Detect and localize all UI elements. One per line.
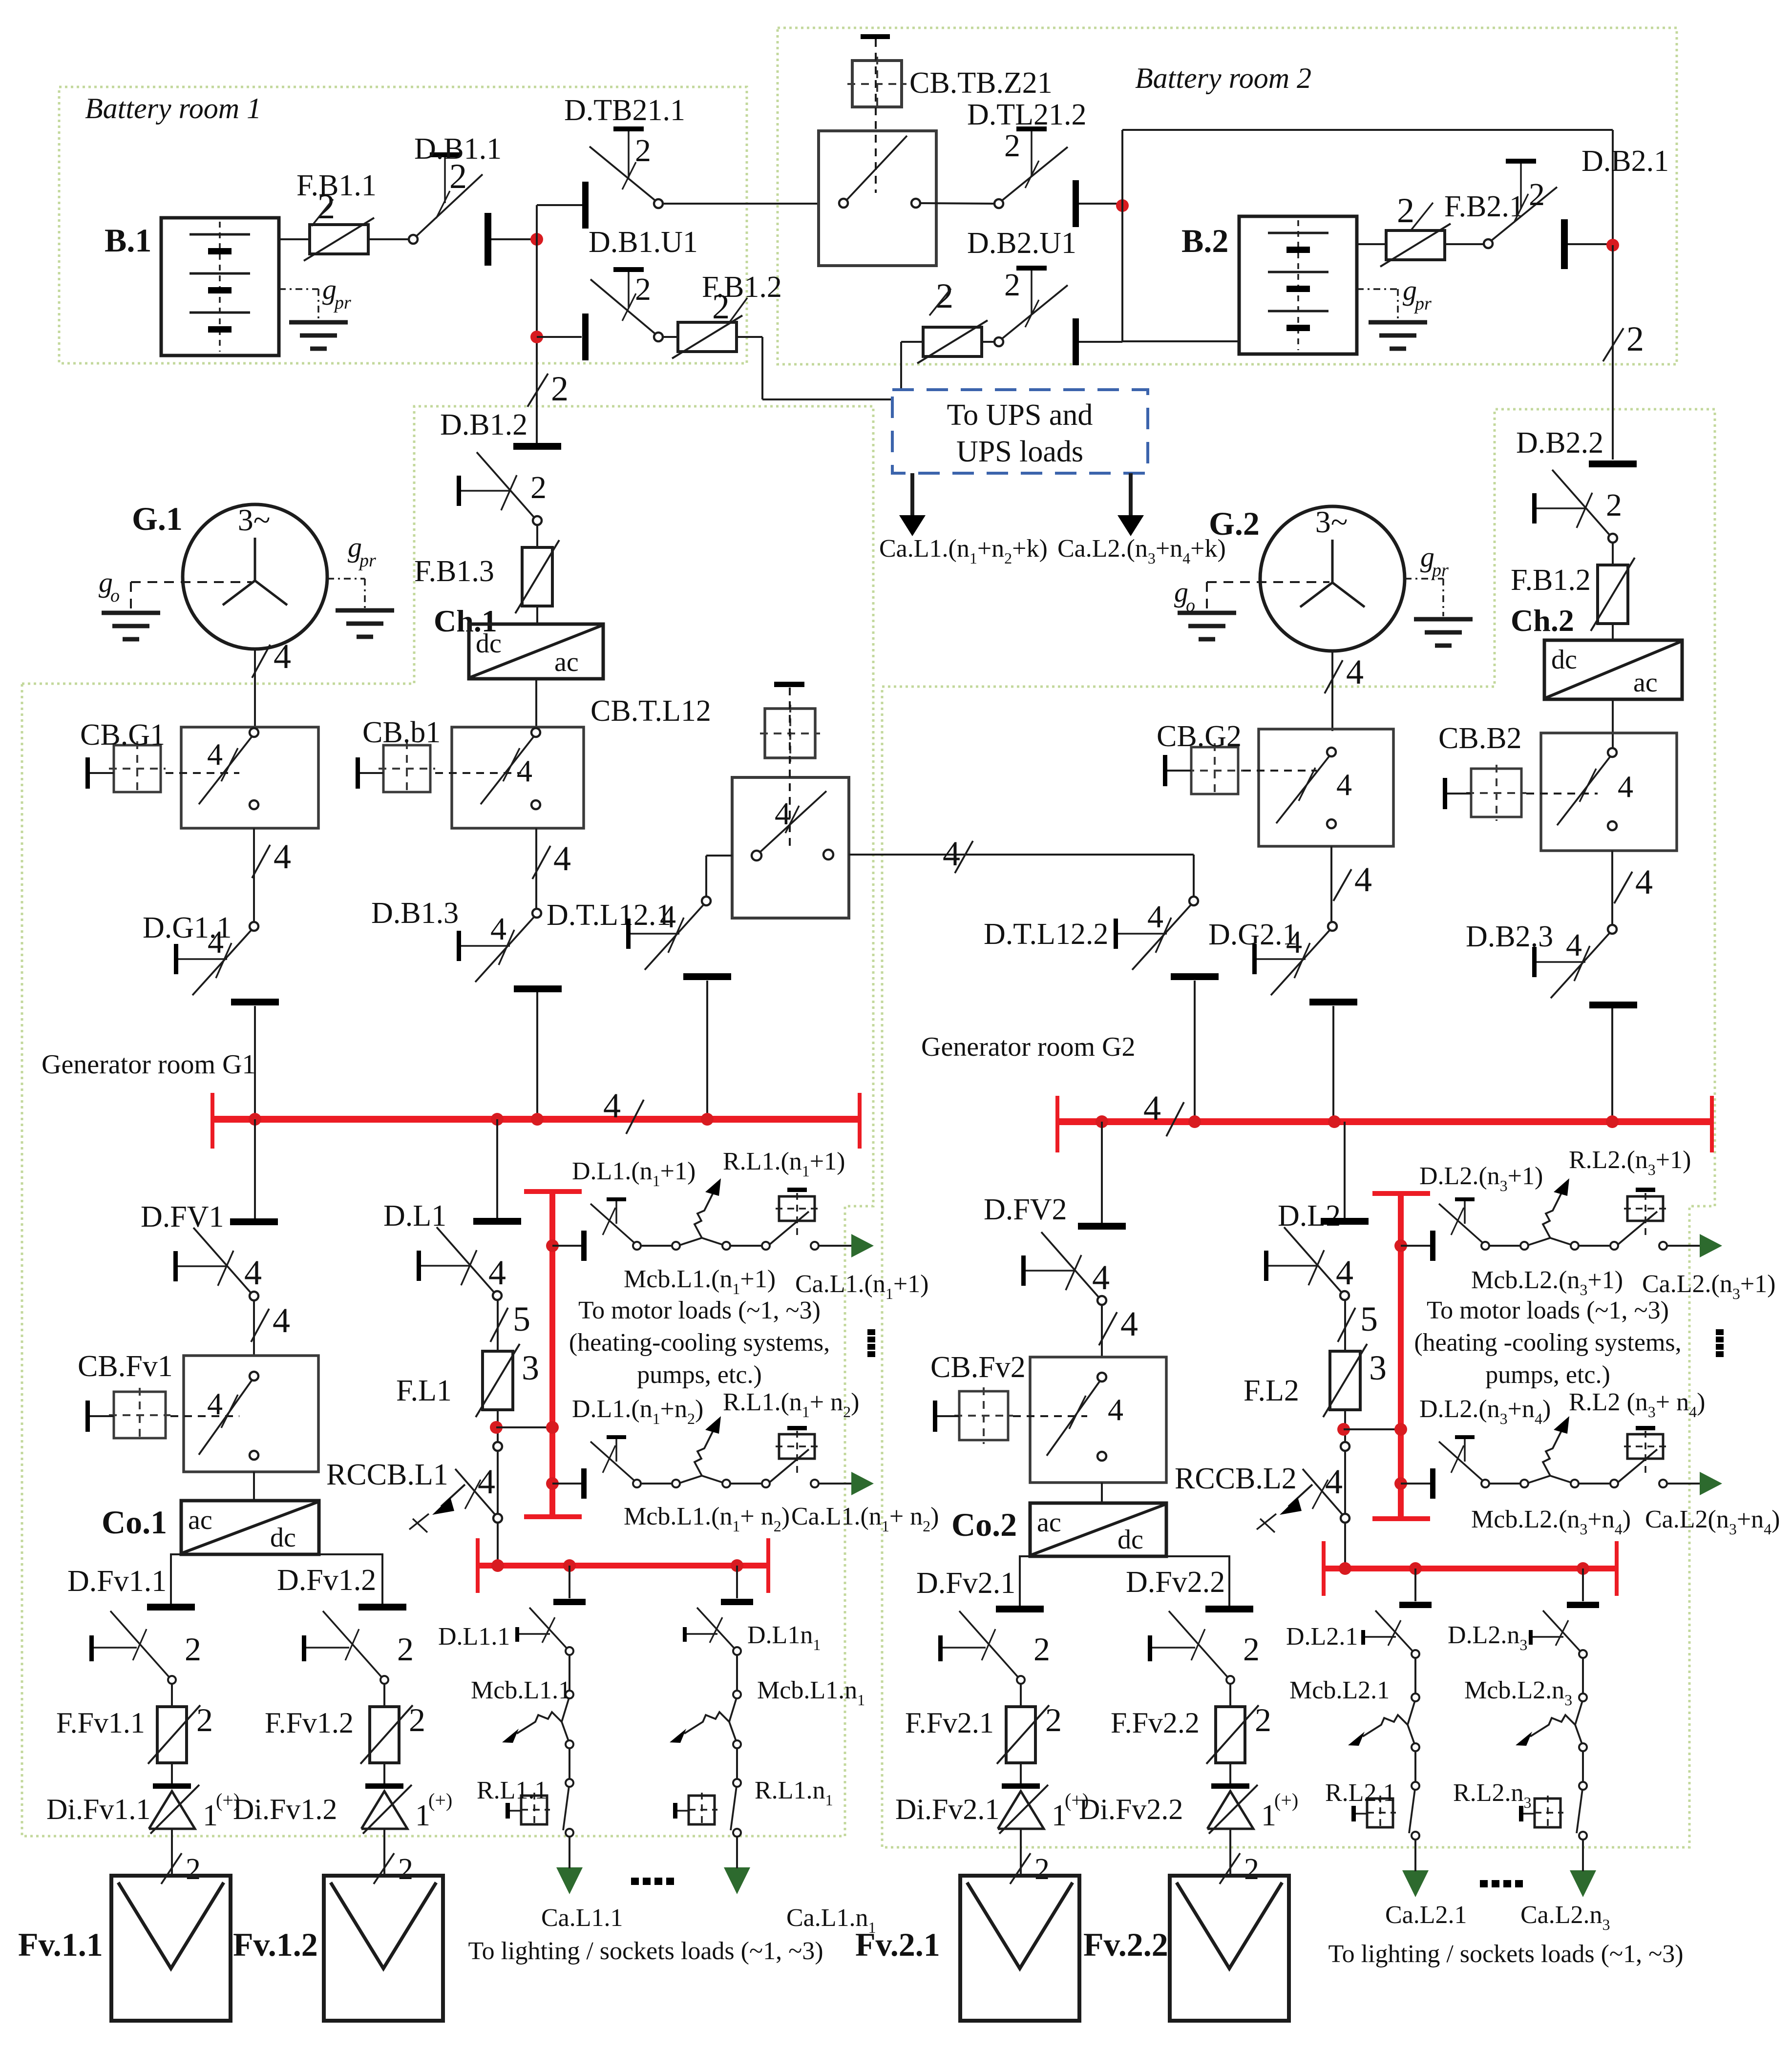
svg-text:4: 4 [1147, 899, 1163, 935]
svg-text:F.B1.3: F.B1.3 [414, 555, 494, 588]
svg-text:pumps, etc.): pumps, etc.) [1485, 1361, 1610, 1389]
svg-text:D.T.L12.1: D.T.L12.1 [547, 899, 671, 932]
svg-text:F.Fv1.2: F.Fv1.2 [265, 1707, 354, 1739]
svg-text:2: 2 [712, 287, 730, 326]
svg-text:dc: dc [1117, 1525, 1143, 1555]
svg-text:Mcb.L1.n1: Mcb.L1.n1 [757, 1676, 865, 1709]
svg-text:(heating -cooling systems,: (heating -cooling systems, [1414, 1329, 1681, 1357]
svg-text:4: 4 [1092, 1258, 1110, 1297]
svg-text:F.B1.2: F.B1.2 [1511, 564, 1591, 597]
svg-text:4: 4 [1336, 1253, 1353, 1292]
svg-text:D.Fv1.1: D.Fv1.1 [67, 1565, 167, 1598]
svg-text:F.Fv2.1: F.Fv2.1 [905, 1707, 994, 1739]
svg-text:R.L1.(n1+ n2): R.L1.(n1+ n2) [723, 1388, 859, 1421]
svg-text:4: 4 [553, 839, 571, 878]
svg-text:To motor loads (~1, ~3): To motor loads (~1, ~3) [1427, 1297, 1669, 1324]
svg-text:2: 2 [1045, 1701, 1062, 1738]
svg-text:4: 4 [1618, 769, 1633, 804]
svg-text:CB.B2: CB.B2 [1438, 722, 1522, 755]
svg-text:(+): (+) [1274, 1789, 1298, 1811]
svg-text:4: 4 [1635, 862, 1653, 901]
svg-text:G.1: G.1 [132, 500, 183, 537]
svg-text:4: 4 [1566, 927, 1582, 963]
svg-text:4: 4 [1143, 1088, 1161, 1128]
svg-text:RCCB.L2: RCCB.L2 [1175, 1462, 1297, 1495]
svg-text:D.B1.U1: D.B1.U1 [589, 226, 698, 259]
svg-text:Co.1: Co.1 [102, 1504, 167, 1541]
svg-text:Ca.L2.n3: Ca.L2.n3 [1520, 1901, 1610, 1933]
svg-text:UPS loads: UPS loads [956, 435, 1083, 468]
svg-text:4: 4 [478, 1462, 495, 1501]
svg-text:Co.2: Co.2 [951, 1506, 1017, 1543]
svg-text:4: 4 [660, 899, 676, 935]
svg-text:2: 2 [186, 1853, 201, 1886]
svg-text:D.TB21.1: D.TB21.1 [564, 94, 685, 127]
svg-text:R.L1.(n1+1): R.L1.(n1+1) [723, 1148, 845, 1180]
svg-text:o: o [1186, 595, 1195, 616]
svg-text:3: 3 [522, 1348, 539, 1387]
svg-text:R.L2.(n3+1): R.L2.(n3+1) [1569, 1146, 1691, 1178]
svg-text:4: 4 [1346, 652, 1364, 691]
svg-text:D.Fv2.1: D.Fv2.1 [916, 1567, 1015, 1600]
svg-text:2: 2 [397, 1631, 414, 1668]
svg-text:2: 2 [1397, 191, 1414, 230]
svg-text:D.L2.n3: D.L2.n3 [1448, 1621, 1527, 1653]
svg-text:D.L2.1: D.L2.1 [1286, 1623, 1358, 1651]
svg-text:2: 2 [398, 1853, 413, 1886]
svg-text:(heating-cooling systems,: (heating-cooling systems, [569, 1329, 830, 1357]
svg-text:Ca.L2(n3+n4): Ca.L2(n3+n4) [1645, 1506, 1780, 1538]
svg-text:5: 5 [1360, 1299, 1378, 1339]
svg-text:4: 4 [943, 834, 960, 873]
svg-text:2: 2 [1033, 1631, 1050, 1668]
svg-text:CB.Fv1: CB.Fv1 [78, 1350, 173, 1383]
svg-text:CB.b1: CB.b1 [362, 716, 441, 749]
svg-text:D.FV1: D.FV1 [141, 1200, 224, 1234]
svg-text:CB.T.L12: CB.T.L12 [590, 694, 711, 728]
svg-text:ac: ac [1037, 1507, 1061, 1538]
svg-text:Di.Fv1.2: Di.Fv1.2 [233, 1793, 337, 1825]
svg-text:(+): (+) [428, 1789, 452, 1811]
svg-text:D.B1.2: D.B1.2 [440, 408, 527, 441]
svg-text:5: 5 [513, 1299, 530, 1339]
svg-text:Mcb.L2.n3: Mcb.L2.n3 [1464, 1676, 1572, 1709]
svg-text:B.1: B.1 [105, 222, 151, 259]
svg-text:3: 3 [1369, 1348, 1387, 1387]
svg-text:RCCB.L1: RCCB.L1 [326, 1458, 448, 1491]
svg-text:4: 4 [244, 1253, 262, 1292]
svg-text:CB.Fv2: CB.Fv2 [930, 1351, 1026, 1384]
svg-text:Fv.1.2: Fv.1.2 [233, 1926, 318, 1963]
svg-text:CB.G1: CB.G1 [80, 718, 165, 752]
svg-text:4: 4 [490, 911, 506, 947]
svg-text:pr: pr [1413, 293, 1432, 314]
svg-text:o: o [110, 586, 120, 606]
svg-text:F.Fv2.2: F.Fv2.2 [1111, 1707, 1200, 1739]
svg-text:dc: dc [1551, 645, 1577, 675]
svg-text:Di.Fv2.2: Di.Fv2.2 [1079, 1793, 1183, 1825]
svg-text:Mcb.L1.(n1+ n2): Mcb.L1.(n1+ n2) [624, 1503, 790, 1535]
svg-text:Mcb.L2.(n3+1): Mcb.L2.(n3+1) [1471, 1266, 1623, 1298]
svg-text:3~: 3~ [1315, 504, 1348, 539]
svg-text:ac: ac [554, 647, 579, 677]
svg-text:D.B1.1: D.B1.1 [414, 132, 502, 166]
svg-text:F.L2: F.L2 [1244, 1374, 1299, 1407]
svg-text:2: 2 [1004, 128, 1020, 164]
svg-text:Mcb.L2.1: Mcb.L2.1 [1289, 1676, 1390, 1704]
svg-text:4: 4 [488, 1253, 506, 1292]
svg-text:2: 2 [1004, 267, 1020, 303]
svg-text:Ca.L1.(n1+n2+k): Ca.L1.(n1+n2+k) [879, 535, 1048, 567]
svg-text:To motor loads (~1, ~3): To motor loads (~1, ~3) [578, 1297, 821, 1324]
svg-text:ac: ac [1633, 668, 1658, 698]
svg-text:3~: 3~ [238, 502, 271, 537]
svg-text:pumps, etc.): pumps, etc.) [637, 1361, 762, 1389]
svg-text:F.Fv1.1: F.Fv1.1 [56, 1707, 145, 1739]
svg-text:D.L1.(n1+n2): D.L1.(n1+n2) [572, 1395, 703, 1427]
svg-text:4: 4 [1325, 1462, 1343, 1501]
svg-text:2: 2 [530, 470, 547, 505]
svg-text:F.B2.1: F.B2.1 [1444, 190, 1524, 223]
svg-text:4: 4 [274, 637, 291, 676]
svg-text:2: 2 [196, 1701, 213, 1738]
svg-text:To UPS and: To UPS and [947, 398, 1093, 432]
svg-text:Generator room G2: Generator room G2 [921, 1032, 1136, 1062]
svg-text:2: 2 [1529, 177, 1545, 212]
svg-text:4: 4 [603, 1086, 621, 1125]
svg-text:Ca.L1.(n1+ n2): Ca.L1.(n1+ n2) [791, 1503, 939, 1535]
svg-text:D.B1.3: D.B1.3 [371, 897, 459, 930]
svg-text:To lighting / sockets loads (~: To lighting / sockets loads (~1, ~3) [1328, 1940, 1683, 1968]
svg-text:4: 4 [1354, 860, 1372, 899]
svg-text:CB.G2: CB.G2 [1157, 720, 1242, 753]
svg-text:dc: dc [270, 1523, 296, 1553]
svg-text:2: 2 [1255, 1701, 1271, 1738]
svg-text:2: 2 [409, 1701, 425, 1738]
svg-text:R.L2.n3: R.L2.n3 [1453, 1779, 1531, 1811]
svg-text:D.B2.3: D.B2.3 [1466, 920, 1553, 953]
svg-text:2: 2 [1243, 1631, 1260, 1668]
svg-text:2: 2 [551, 369, 569, 408]
svg-text:Mcb.L1.1: Mcb.L1.1 [471, 1676, 571, 1704]
svg-text:CB.TB.Z21: CB.TB.Z21 [909, 66, 1053, 100]
svg-text:D.L1.(n1+1): D.L1.(n1+1) [572, 1157, 696, 1190]
svg-text:Battery room 1: Battery room 1 [85, 92, 261, 125]
svg-text:2: 2 [635, 133, 651, 168]
svg-text:pr: pr [333, 293, 351, 313]
svg-text:Mcb.L1.(n1+1): Mcb.L1.(n1+1) [624, 1265, 776, 1297]
svg-text:2: 2 [1244, 1853, 1259, 1886]
svg-text:Ca.L2.(n3+n4+k): Ca.L2.(n3+n4+k) [1057, 535, 1226, 567]
svg-text:2: 2 [635, 272, 651, 307]
svg-text:R.L1.n1: R.L1.n1 [755, 1777, 833, 1809]
svg-text:B.2: B.2 [1181, 222, 1228, 259]
svg-text:F.B1.1: F.B1.1 [296, 169, 377, 202]
svg-text:D.T.L12.2: D.T.L12.2 [984, 918, 1108, 951]
svg-text:pr: pr [1431, 560, 1449, 581]
svg-text:Fv.1.1: Fv.1.1 [18, 1926, 103, 1963]
svg-text:4: 4 [517, 753, 532, 788]
svg-text:Ca.L2.1: Ca.L2.1 [1385, 1901, 1467, 1929]
svg-text:Mcb.L2.(n3+n4): Mcb.L2.(n3+n4) [1471, 1506, 1631, 1538]
svg-text:pr: pr [358, 550, 376, 571]
svg-text:D.B2.2: D.B2.2 [1516, 426, 1603, 460]
svg-text:Battery room 2: Battery room 2 [1135, 62, 1311, 94]
svg-text:2: 2 [1626, 319, 1644, 358]
svg-text:To lighting / sockets loads (~: To lighting / sockets loads (~1, ~3) [468, 1937, 823, 1965]
svg-text:4: 4 [207, 737, 223, 772]
svg-text:4: 4 [1336, 767, 1352, 802]
svg-text:2: 2 [1034, 1853, 1050, 1886]
svg-text:4: 4 [1286, 924, 1302, 960]
svg-text:4: 4 [208, 924, 224, 960]
svg-text:D.Fv2.2: D.Fv2.2 [1126, 1566, 1225, 1599]
svg-text:4: 4 [1120, 1304, 1138, 1343]
svg-text:Fv.2.1: Fv.2.1 [855, 1926, 940, 1963]
svg-text:Di.Fv2.1: Di.Fv2.1 [895, 1793, 999, 1825]
svg-text:Ca.L1.1: Ca.L1.1 [541, 1904, 623, 1932]
svg-text:D.TL21.2: D.TL21.2 [967, 98, 1087, 131]
svg-text:4: 4 [1108, 1392, 1123, 1427]
svg-text:Generator room G1: Generator room G1 [42, 1049, 256, 1080]
svg-text:Ch.2: Ch.2 [1511, 603, 1574, 638]
svg-text:R.L2.1: R.L2.1 [1325, 1779, 1395, 1807]
svg-text:R.L2 (n3+ n4): R.L2 (n3+ n4) [1569, 1388, 1705, 1421]
svg-text:4: 4 [273, 1301, 290, 1340]
svg-text:D.L2.(n3+1): D.L2.(n3+1) [1419, 1162, 1543, 1194]
svg-text:ac: ac [188, 1505, 212, 1535]
svg-text:D.L2.(n3+n4): D.L2.(n3+n4) [1419, 1395, 1551, 1427]
svg-text:R.L1.1: R.L1.1 [477, 1777, 547, 1804]
svg-text:Di.Fv1.1: Di.Fv1.1 [46, 1793, 150, 1825]
svg-text:D.L1n1: D.L1n1 [747, 1621, 821, 1653]
svg-text:D.L1.1: D.L1.1 [438, 1623, 510, 1651]
svg-text:D.FV2: D.FV2 [984, 1193, 1067, 1226]
svg-text:D.B2.U1: D.B2.U1 [967, 227, 1076, 260]
svg-text:D.Fv1.2: D.Fv1.2 [277, 1564, 376, 1597]
svg-text:D.B2.1: D.B2.1 [1581, 145, 1669, 178]
svg-text:F.L1: F.L1 [396, 1374, 452, 1407]
svg-text:2: 2 [1606, 487, 1622, 523]
svg-text:dc: dc [476, 628, 502, 659]
svg-text:4: 4 [775, 796, 791, 832]
svg-text:Fv.2.2: Fv.2.2 [1083, 1926, 1168, 1963]
svg-text:4: 4 [274, 837, 291, 876]
svg-text:2: 2 [185, 1631, 201, 1668]
svg-text:D.L2: D.L2 [1278, 1199, 1341, 1233]
